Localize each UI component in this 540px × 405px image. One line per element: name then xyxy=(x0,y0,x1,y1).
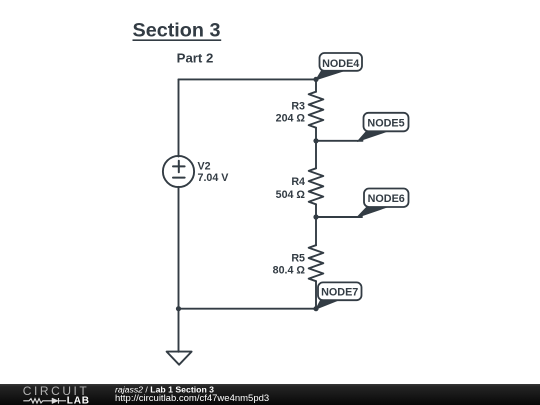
svg-text:204 Ω: 204 Ω xyxy=(276,113,306,125)
svg-text:R3: R3 xyxy=(291,100,305,112)
svg-text:NODE6: NODE6 xyxy=(368,193,405,205)
svg-text:504 Ω: 504 Ω xyxy=(276,189,306,201)
svg-text:NODE5: NODE5 xyxy=(367,117,404,129)
svg-text:Part 2: Part 2 xyxy=(177,51,214,66)
svg-text:http://circuitlab.com/cf47we4n: http://circuitlab.com/cf47we4nm5pd3 xyxy=(115,393,269,404)
svg-text:LAB: LAB xyxy=(67,395,90,405)
svg-text:R5: R5 xyxy=(291,253,305,265)
svg-text:7.04 V: 7.04 V xyxy=(198,172,230,184)
svg-text:R4: R4 xyxy=(291,176,305,188)
svg-text:V2: V2 xyxy=(198,161,211,173)
svg-text:Section 3: Section 3 xyxy=(133,20,221,42)
svg-text:80.4 Ω: 80.4 Ω xyxy=(273,265,306,277)
svg-text:NODE7: NODE7 xyxy=(321,287,358,299)
svg-text:NODE4: NODE4 xyxy=(322,58,359,70)
